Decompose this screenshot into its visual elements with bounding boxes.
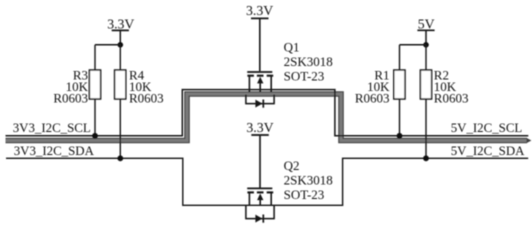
svg-text:R0603: R0603: [129, 91, 164, 106]
svg-text:3V3_I2C_SCL: 3V3_I2C_SCL: [13, 121, 91, 135]
Q2 gate plate: [247, 187, 272, 189]
wire power to R3: [95, 44, 120, 46]
3.3V power bar (Q1 gate): [251, 17, 269, 19]
net 3V3_I2C_SCL/5V_I2C_SCL thick highlighted bus band: [6, 94, 532, 143]
junction dot R2/SDA: [423, 155, 429, 161]
3.3V power bar (left rail): [112, 29, 129, 31]
svg-text:5V_I2C_SDA: 5V_I2C_SDA: [451, 144, 525, 158]
Q2 drain lead: [270, 193, 272, 205]
Q1 gate lead: [259, 18, 261, 71]
resistor R2: [420, 45, 468, 159]
Q1 gate plate: [247, 71, 272, 73]
svg-text:R0603: R0603: [355, 91, 390, 106]
Q1 body diode: [255, 100, 262, 108]
Q2 gate lead: [259, 135, 261, 188]
Q1 channel segments: [247, 75, 254, 77]
svg-text:3V3_I2C_SDA: 3V3_I2C_SDA: [14, 144, 95, 158]
resistor R3: [53, 45, 100, 136]
Q2 body arrow: [257, 194, 263, 201]
svg-text:2SK3018: 2SK3018: [284, 172, 333, 187]
Q1 body diode loop: [246, 95, 274, 108]
power 5V rail (right, above R1/R2): [417, 17, 434, 45]
svg-text:R0603: R0603: [434, 91, 469, 106]
svg-text:SOT-23: SOT-23: [284, 69, 325, 84]
transistor Q2 2SK3018: [247, 135, 273, 205]
wire from 5V bar down: [425, 30, 427, 45]
Q2 body diode loop: [246, 205, 274, 222]
svg-text:R0603: R0603: [53, 91, 88, 106]
svg-text:3.3V: 3.3V: [246, 120, 273, 135]
resistor R4: [115, 45, 164, 159]
junction dot R4/SDA: [117, 155, 123, 161]
Q2 body lead: [259, 200, 261, 206]
Q1 labels: [284, 40, 333, 84]
svg-text:3.3V: 3.3V: [246, 3, 273, 18]
junction dot right power: [423, 42, 429, 48]
Q1 source lead: [248, 76, 250, 92]
power 3.3V above Q2: [246, 120, 273, 135]
svg-text:Q1: Q1: [284, 40, 300, 55]
power 3.3V rail (left, above R3/R4): [107, 17, 134, 45]
svg-text:SOT-23: SOT-23: [284, 187, 325, 202]
Q1 body lead: [259, 83, 261, 93]
svg-text:5V_I2C_SCL: 5V_I2C_SCL: [451, 121, 523, 135]
Q1 drain lead: [270, 76, 272, 92]
Q2 body diode: [255, 215, 262, 223]
svg-text:3.3V: 3.3V: [107, 17, 134, 32]
wire SDA (left port down under Q2 and up to right port): [6, 158, 528, 205]
svg-text:Q2: Q2: [284, 158, 300, 173]
wire SCL thin line (left port to right port over Q1): [6, 90, 529, 136]
wire from left 3.3V bar down: [119, 30, 121, 44]
3.3V power bar (Q2 gate): [251, 134, 268, 136]
transistor Q1 2SK3018: [247, 18, 273, 92]
Q2 channel segments: [247, 191, 254, 193]
Q2 source lead: [248, 193, 250, 205]
wire power to R1: [400, 44, 427, 46]
junction dot R3/SCL: [92, 133, 98, 139]
power 3.3V above Q1: [246, 3, 273, 18]
svg-text:2SK3018: 2SK3018: [284, 54, 333, 69]
junction dot R1/SCL: [397, 133, 403, 139]
junction dot left power: [118, 42, 124, 48]
5V power bar: [417, 29, 434, 31]
Q1 body arrow: [257, 77, 263, 84]
svg-text:5V: 5V: [418, 17, 435, 32]
resistor R1: [355, 45, 405, 136]
Q2 labels: [284, 158, 333, 202]
